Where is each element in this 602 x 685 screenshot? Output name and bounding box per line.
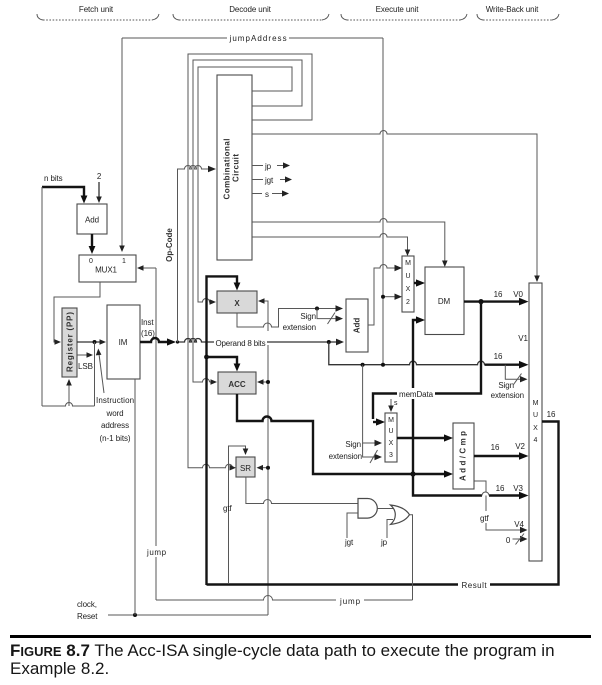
svg-text:X: X	[406, 286, 411, 293]
node X output to Add input 2	[315, 307, 319, 311]
register ACC	[218, 372, 256, 394]
adder Add (PC+2)	[77, 204, 107, 234]
svg-text:s: s	[394, 400, 398, 407]
adder Add2 sign extension adder	[346, 299, 368, 352]
register Register (PP)	[62, 308, 77, 377]
node jumpAddress tap	[381, 363, 385, 367]
svg-text:Write-Back unit: Write-Back unit	[486, 5, 539, 14]
svg-text:(16): (16)	[141, 329, 155, 338]
svg-text:clock,: clock,	[77, 600, 97, 609]
wire X output to Add2	[237, 309, 337, 328]
svg-text:Add: Add	[85, 216, 99, 225]
wire CC to MUX2 select	[252, 234, 408, 251]
svg-text:jp: jp	[380, 538, 388, 547]
register X	[217, 291, 257, 313]
svg-text:2: 2	[406, 299, 410, 306]
svg-text:4: 4	[534, 437, 538, 444]
label Result	[458, 579, 490, 591]
wire LSB	[77, 354, 88, 356]
svg-text:MUX1: MUX1	[95, 266, 117, 275]
svg-text:V1: V1	[518, 334, 528, 343]
svg-text:Add: Add	[353, 318, 362, 334]
wire Add/Cmp lower output join	[474, 481, 486, 492]
wire jump riser	[155, 268, 157, 600]
svg-text:Fetch unit: Fetch unit	[79, 5, 114, 14]
svg-text:DM: DM	[438, 297, 451, 306]
mux MUX2	[402, 256, 414, 312]
svg-text:extension: extension	[491, 391, 524, 400]
wire sign extension into MUX3 input 3 with slash	[363, 443, 376, 457]
svg-text:jp: jp	[264, 162, 272, 171]
wire constant 2 into Add	[98, 182, 100, 197]
svg-text:memData: memData	[399, 390, 434, 399]
node V0 memData junction	[478, 299, 483, 304]
execute unit bracket	[341, 5, 467, 20]
wire Inst 16 bus from IM	[140, 338, 167, 342]
wire s select into MUX3	[390, 399, 392, 406]
wire left feedback vertical	[41, 187, 43, 406]
wire clock into ACC right	[262, 381, 268, 383]
svg-text:IM: IM	[119, 338, 128, 347]
wire annotation arrow	[99, 354, 104, 393]
svg-text:Reset: Reset	[77, 612, 98, 621]
svg-text:Result: Result	[462, 581, 488, 590]
mux MUX4	[529, 283, 542, 561]
svg-text:gtf: gtf	[223, 504, 232, 513]
svg-text:V4: V4	[514, 520, 524, 529]
svg-text:U: U	[388, 428, 393, 435]
svg-text:(n-1 bits): (n-1 bits)	[100, 434, 131, 443]
svg-text:0: 0	[89, 258, 93, 265]
svg-text:word: word	[106, 409, 124, 418]
wire Add output into MUX1 input 0	[91, 234, 93, 247]
svg-text:extension: extension	[329, 452, 362, 461]
svg-text:V3: V3	[513, 484, 523, 493]
wire Add2 input 2 with bus slash	[317, 309, 337, 319]
svg-text:U: U	[405, 273, 410, 280]
wire operand to V1 line	[329, 342, 485, 365]
svg-text:X: X	[533, 425, 538, 432]
wire V3 from ACC net	[413, 474, 482, 496]
wire Result riser thick	[207, 276, 238, 585]
svg-text:address: address	[101, 421, 129, 430]
combinational circuit U-CC	[217, 75, 252, 260]
wire operand into Add2 arrow	[336, 339, 344, 346]
wire CC to MUX4 select	[252, 131, 537, 276]
wire V1 sign extension branch into MUX4	[505, 365, 521, 380]
mux MUX3	[385, 413, 397, 462]
mux MUX1	[79, 255, 136, 282]
svg-text:Inst: Inst	[141, 318, 154, 327]
wire Register clock riser	[68, 384, 70, 406]
svg-text:V0: V0	[513, 290, 523, 299]
svg-text:16: 16	[494, 290, 503, 299]
svg-text:Circuit: Circuit	[232, 154, 241, 182]
svg-text:jumpAddress: jumpAddress	[229, 34, 287, 43]
wire AND output to OR	[378, 508, 394, 510]
label Operand 8 bits	[214, 336, 267, 348]
label jump left	[145, 546, 167, 557]
svg-text:gtf: gtf	[480, 514, 489, 523]
wire jump select into MUX1 right	[142, 267, 156, 269]
wire Op-Code riser into CC	[178, 166, 210, 342]
wire jgt input to AND	[347, 513, 358, 538]
svg-text:extension: extension	[283, 323, 316, 332]
svg-text:2: 2	[97, 172, 102, 181]
fetch unit bracket	[37, 5, 159, 20]
node sign extension drop	[361, 363, 365, 367]
wire constant 0 into MUX4 with slash	[513, 538, 522, 540]
svg-text:SR: SR	[240, 464, 251, 473]
svg-text:n bits: n bits	[44, 174, 63, 183]
label memData	[397, 388, 435, 399]
svg-text:Op-Code: Op-Code	[165, 228, 174, 262]
wire clock Reset horizontal	[108, 614, 268, 616]
wire clock riser to IM	[134, 379, 136, 615]
svg-text:3: 3	[389, 452, 393, 459]
wire DM data in from ACC	[413, 320, 417, 474]
wire CC output s	[252, 193, 262, 195]
wire MUX2 input 2 from jumpAddress net	[383, 296, 396, 298]
wire n bits bus	[42, 187, 84, 197]
svg-text:V2: V2	[515, 442, 525, 451]
wire Result branch into ACC top	[207, 357, 238, 364]
svg-text:jgt: jgt	[344, 538, 354, 547]
write-back unit bracket	[477, 5, 559, 20]
gate AND	[358, 499, 377, 519]
register SR	[236, 457, 255, 477]
label jump bottom	[336, 594, 364, 606]
svg-text:Sign: Sign	[498, 381, 514, 390]
svg-text:Operand 8 bits: Operand 8 bits	[216, 339, 266, 348]
svg-text:jump: jump	[339, 597, 361, 606]
wire ACC output	[237, 394, 445, 474]
svg-text:16: 16	[491, 443, 500, 452]
wire address feedback bottom	[42, 403, 95, 406]
svg-text:1: 1	[122, 258, 126, 265]
node operand junction at 177	[176, 340, 179, 343]
wire MUX1 output to Register PP	[54, 282, 100, 342]
wire MUX3 output to Add/Cmp	[397, 437, 445, 439]
wire CC wrap outer to SR load	[188, 54, 312, 468]
wire CC wrap middle to ACC load	[193, 60, 302, 382]
label gtf right	[478, 511, 495, 523]
node ACC to DM junction	[410, 471, 415, 476]
svg-text:Sign: Sign	[345, 440, 361, 449]
node IM address junction	[93, 340, 97, 344]
alu Add/Cmp	[453, 423, 474, 489]
svg-text:Decode unit: Decode unit	[229, 5, 271, 14]
wire SR gtf output to AND gate	[246, 477, 358, 504]
wire jumpAddress right leg down to operand node	[382, 38, 384, 365]
wire CC to DM control	[252, 219, 445, 262]
memory DM	[425, 267, 464, 335]
svg-text:M: M	[388, 417, 394, 424]
wire operand 8 bits line	[177, 339, 339, 343]
wire MUX2 input 1 from Add2	[368, 265, 396, 325]
gate OR	[391, 505, 410, 524]
wire DM output V0	[464, 300, 520, 302]
wire memData from DM output	[373, 302, 481, 419]
svg-text:M: M	[405, 260, 411, 267]
memory IM	[107, 305, 140, 379]
wire clock into SR right	[262, 467, 268, 469]
wire jumpAddress horizontal	[122, 37, 383, 39]
svg-text:jgt: jgt	[264, 176, 274, 185]
svg-text:X: X	[234, 299, 240, 308]
svg-text:0: 0	[506, 536, 511, 545]
wire MUX4 output Result	[207, 422, 559, 585]
wire feedback riser to IM input	[94, 342, 96, 406]
wire jump line bottom	[156, 596, 413, 601]
wire CC output jgt	[252, 179, 263, 181]
node Result to ACC junction	[204, 355, 209, 360]
svg-text:Instruction: Instruction	[96, 396, 134, 405]
wire V1 into MUX4 thick	[485, 364, 521, 366]
svg-text:16: 16	[494, 352, 503, 361]
svg-text:16: 16	[547, 410, 556, 419]
svg-text:M: M	[533, 400, 539, 407]
wire SR load loop from Result	[229, 446, 246, 583]
decode unit bracket	[173, 5, 329, 20]
svg-text:U: U	[533, 412, 538, 419]
wire MUX2 output to DM	[414, 282, 417, 284]
svg-text:s: s	[265, 190, 269, 199]
wire jumpAddress left leg into MUX1 input 1	[121, 38, 123, 247]
svg-text:jump: jump	[146, 548, 167, 557]
svg-text:X: X	[389, 440, 394, 447]
svg-text:Combinational: Combinational	[223, 139, 232, 200]
svg-text:Execute unit: Execute unit	[376, 5, 420, 14]
wire ACC load continue	[210, 381, 212, 383]
wire gtf output down to V4	[486, 496, 521, 531]
node operand drop junction	[327, 340, 331, 344]
wire clock riser	[267, 345, 269, 615]
node jumpAddress label	[227, 32, 289, 43]
wire Register PP to IM	[77, 341, 101, 343]
svg-text:16: 16	[496, 484, 505, 493]
wire jp input to OR	[387, 520, 393, 539]
svg-text:Sign: Sign	[300, 312, 316, 321]
svg-text:LSB: LSB	[78, 362, 93, 371]
wire sign extension into MUX3 input 2	[363, 365, 376, 443]
svg-text:ACC: ACC	[228, 380, 246, 389]
wire Add/Cmp output V2	[474, 455, 520, 457]
svg-text:Register (PP): Register (PP)	[66, 312, 75, 372]
wire CC output jp	[252, 165, 263, 167]
wire CC wrap inner to X load	[198, 67, 292, 302]
wire OR output jump	[410, 515, 413, 600]
